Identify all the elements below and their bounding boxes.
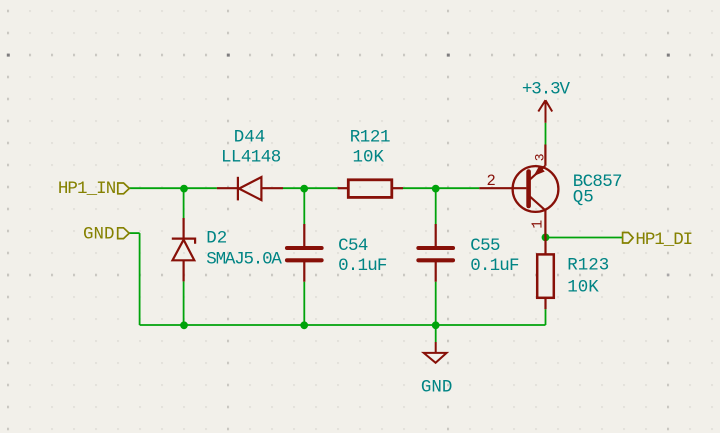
svg-text:GND: GND: [83, 225, 115, 245]
svg-text:3: 3: [532, 153, 547, 161]
C54 top plate: [287, 246, 322, 250]
R123 pin 1: [544, 237, 546, 254]
R123 pin 2: [544, 298, 546, 309]
svg-text:D44: D44: [234, 127, 266, 147]
Q5 base bar: [526, 172, 531, 207]
svg-text:LL4148: LL4148: [221, 148, 281, 168]
node C junction (R121 / C55 / Q5 base): [432, 185, 440, 193]
D44 pin 2: [261, 187, 283, 189]
HP1_DI label shape: [623, 233, 634, 244]
wire GND label down: [139, 233, 141, 325]
svg-text:2: 2: [487, 172, 496, 190]
Q5 body circle: [513, 166, 559, 212]
svg-text:Q5: Q5: [573, 187, 594, 207]
rail junction at C55/GND: [432, 321, 440, 329]
D2 pin 2 (bottom): [183, 260, 185, 281]
svg-text:1: 1: [530, 220, 547, 229]
C55 pin 1: [435, 224, 437, 248]
Q5 collector diagonal (bottom): [530, 196, 546, 210]
Q5 emitter arrow: [535, 166, 544, 175]
svg-text:GND: GND: [421, 378, 453, 398]
+3.3V arrow stem: [545, 100, 547, 123]
C55 top plate: [418, 246, 453, 250]
ground triangle: [424, 353, 447, 363]
wire junction A down to D2: [183, 188, 185, 218]
R121 body: [348, 180, 392, 198]
wire C55 to bottom rail: [435, 282, 437, 325]
C55 bottom plate: [418, 258, 453, 262]
svg-text:SMAJ5.0A: SMAJ5.0A: [206, 250, 282, 270]
svg-text:C55: C55: [470, 236, 500, 256]
Q5 collector pin (1): [544, 210, 546, 237]
Q5 base pin (2): [479, 187, 526, 189]
wire GND label horizontal: [129, 232, 139, 234]
svg-text:D2: D2: [206, 228, 227, 248]
svg-text:HP1_DI: HP1_DI: [635, 230, 692, 250]
svg-text:R123: R123: [567, 255, 609, 275]
D2 cathode bar with zener tail: [172, 239, 195, 244]
C54 bottom plate: [287, 258, 322, 262]
node B junction (D44 / C54 / R121): [300, 185, 308, 193]
wire R121 to Q5 base: [403, 187, 479, 189]
D2 pin 1 (top): [183, 218, 185, 239]
+3.3V arrow barb left: [538, 100, 545, 111]
R121 pin 2: [392, 187, 403, 189]
svg-text:+3.3V: +3.3V: [522, 80, 571, 100]
D44 triangle: [239, 177, 261, 200]
wire power +3.3V to Q5 collector: [545, 123, 547, 145]
HP1_IN label shape: [118, 183, 130, 194]
wire junction B down to C54: [303, 188, 305, 224]
svg-text:0.1uF: 0.1uF: [470, 256, 519, 276]
svg-text:R121: R121: [350, 127, 390, 147]
wire HP1_IN to D44: [129, 187, 217, 189]
D44 pin 1: [217, 187, 238, 189]
wire D44 to R121: [283, 187, 338, 189]
svg-text:0.1uF: 0.1uF: [338, 256, 387, 276]
ground stem: [435, 342, 437, 353]
wire Q5 emitter node to HP1_DI label: [546, 237, 623, 239]
grid major origin marks: [7, 54, 670, 277]
+3.3V arrow barb right: [546, 100, 553, 111]
svg-text:C54: C54: [338, 236, 368, 256]
D2 triangle: [173, 240, 195, 261]
wire GND stem below rail: [435, 325, 437, 342]
node A junction (HP1_IN / D2): [180, 185, 188, 193]
C55 pin 2: [435, 260, 437, 281]
wire C54 to bottom rail: [303, 282, 305, 325]
Q5 emitter pin (3): [544, 145, 546, 166]
wire D2 to bottom rail: [183, 281, 185, 325]
wire bottom rail: [140, 324, 546, 326]
R123 body: [537, 254, 554, 297]
wire junction C down to C55: [435, 188, 437, 224]
C54 pin 1: [303, 224, 305, 248]
svg-text:10K: 10K: [567, 277, 599, 297]
D44 cathode bar: [237, 177, 239, 201]
Q5 emitter diagonal (top): [530, 166, 546, 180]
node HP1_DI junction (Q5 / R123): [542, 234, 550, 242]
C54 pin 2: [303, 260, 305, 281]
rail junction at C54: [300, 321, 308, 329]
R121 pin 1: [338, 187, 349, 189]
svg-text:HP1_IN: HP1_IN: [58, 179, 116, 199]
GND label shape: [118, 228, 130, 239]
rail junction at D2: [180, 321, 188, 329]
svg-text:10K: 10K: [353, 148, 385, 168]
wire rail up to R123: [545, 309, 547, 325]
